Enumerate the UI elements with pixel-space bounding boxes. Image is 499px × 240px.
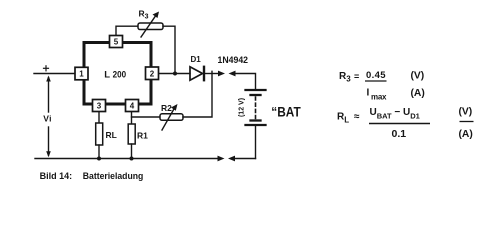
svg-text:(A): (A) (411, 88, 425, 99)
op-amp U1 L200 regulator outline (84, 43, 151, 105)
pin 3 (93, 100, 106, 112)
svg-text:3: 3 (97, 102, 102, 111)
wire R2 to output node (183, 71, 212, 117)
wire D1 to connector (205, 73, 219, 75)
wire pin4 to R2 (132, 116, 161, 118)
wire bottom rail (35, 158, 219, 160)
svg-text:Batterieladung: Batterieladung (83, 171, 144, 182)
wire RL to bottom rail (98, 145, 100, 159)
svg-text:=: = (354, 72, 359, 82)
wire R1 to bottom rail (131, 144, 133, 159)
plus polarity mark (44, 66, 49, 71)
svg-text:0.1: 0.1 (392, 128, 407, 140)
svg-text:≈: ≈ (354, 112, 360, 123)
svg-text:Vi: Vi (43, 114, 51, 124)
wire pin4 to R1 (131, 112, 133, 125)
resistor RL (96, 123, 103, 145)
svg-text:(12 V): (12 V) (239, 98, 246, 117)
resistor R3 (138, 23, 163, 30)
svg-text:I: I (367, 88, 370, 99)
wire pin5 to R3 (116, 26, 138, 36)
wire connector to battery top (235, 74, 256, 89)
svg-text:(V): (V) (411, 71, 425, 82)
pin 2 (146, 67, 159, 80)
node connector arrows top (218, 71, 236, 77)
svg-text:5: 5 (114, 38, 119, 47)
svg-text:2: 2 (150, 69, 155, 78)
diode D1 (190, 67, 204, 80)
wire top input rail (34, 73, 76, 75)
wire pin2 to D1 (159, 73, 191, 75)
pin 4 (126, 100, 139, 112)
node junction R1/rail (130, 157, 134, 161)
svg-text:200: 200 (113, 70, 127, 81)
svg-text:RL: RL (106, 130, 117, 140)
svg-text:R2: R2 (161, 103, 172, 113)
wire connector to battery bottom (234, 158, 256, 160)
resistor R1 (128, 124, 135, 144)
svg-text:max: max (371, 93, 387, 102)
resistor R3 wiper arrow (141, 12, 159, 38)
pin 5 (110, 36, 123, 48)
svg-text:1: 1 (79, 70, 84, 79)
wire pin3 to RL (98, 112, 100, 124)
svg-text:“BAT: “BAT (271, 105, 301, 120)
formula R3 (339, 70, 425, 102)
svg-text:4: 4 (130, 102, 135, 111)
resistor R2 wiper arrow (162, 104, 178, 130)
pin 1 (75, 67, 88, 80)
resistor R2 (160, 114, 183, 121)
node Vi dimension arrow (46, 76, 51, 158)
svg-text:0.45: 0.45 (366, 70, 386, 81)
wire R3 to output node (163, 26, 175, 73)
svg-text:L: L (104, 70, 110, 81)
svg-text:1N4942: 1N4942 (218, 55, 249, 66)
svg-text:R1: R1 (137, 131, 148, 141)
svg-text:Bild 14:: Bild 14: (40, 171, 73, 182)
node junction RL/rail (97, 157, 101, 161)
svg-text:D1: D1 (191, 55, 202, 64)
node junction R3/output (173, 72, 177, 76)
node connector arrows bottom (218, 156, 236, 162)
svg-text:(V): (V) (459, 107, 473, 118)
battery BAT (246, 90, 266, 159)
formula RL (337, 107, 474, 141)
svg-text:(A): (A) (459, 129, 473, 140)
